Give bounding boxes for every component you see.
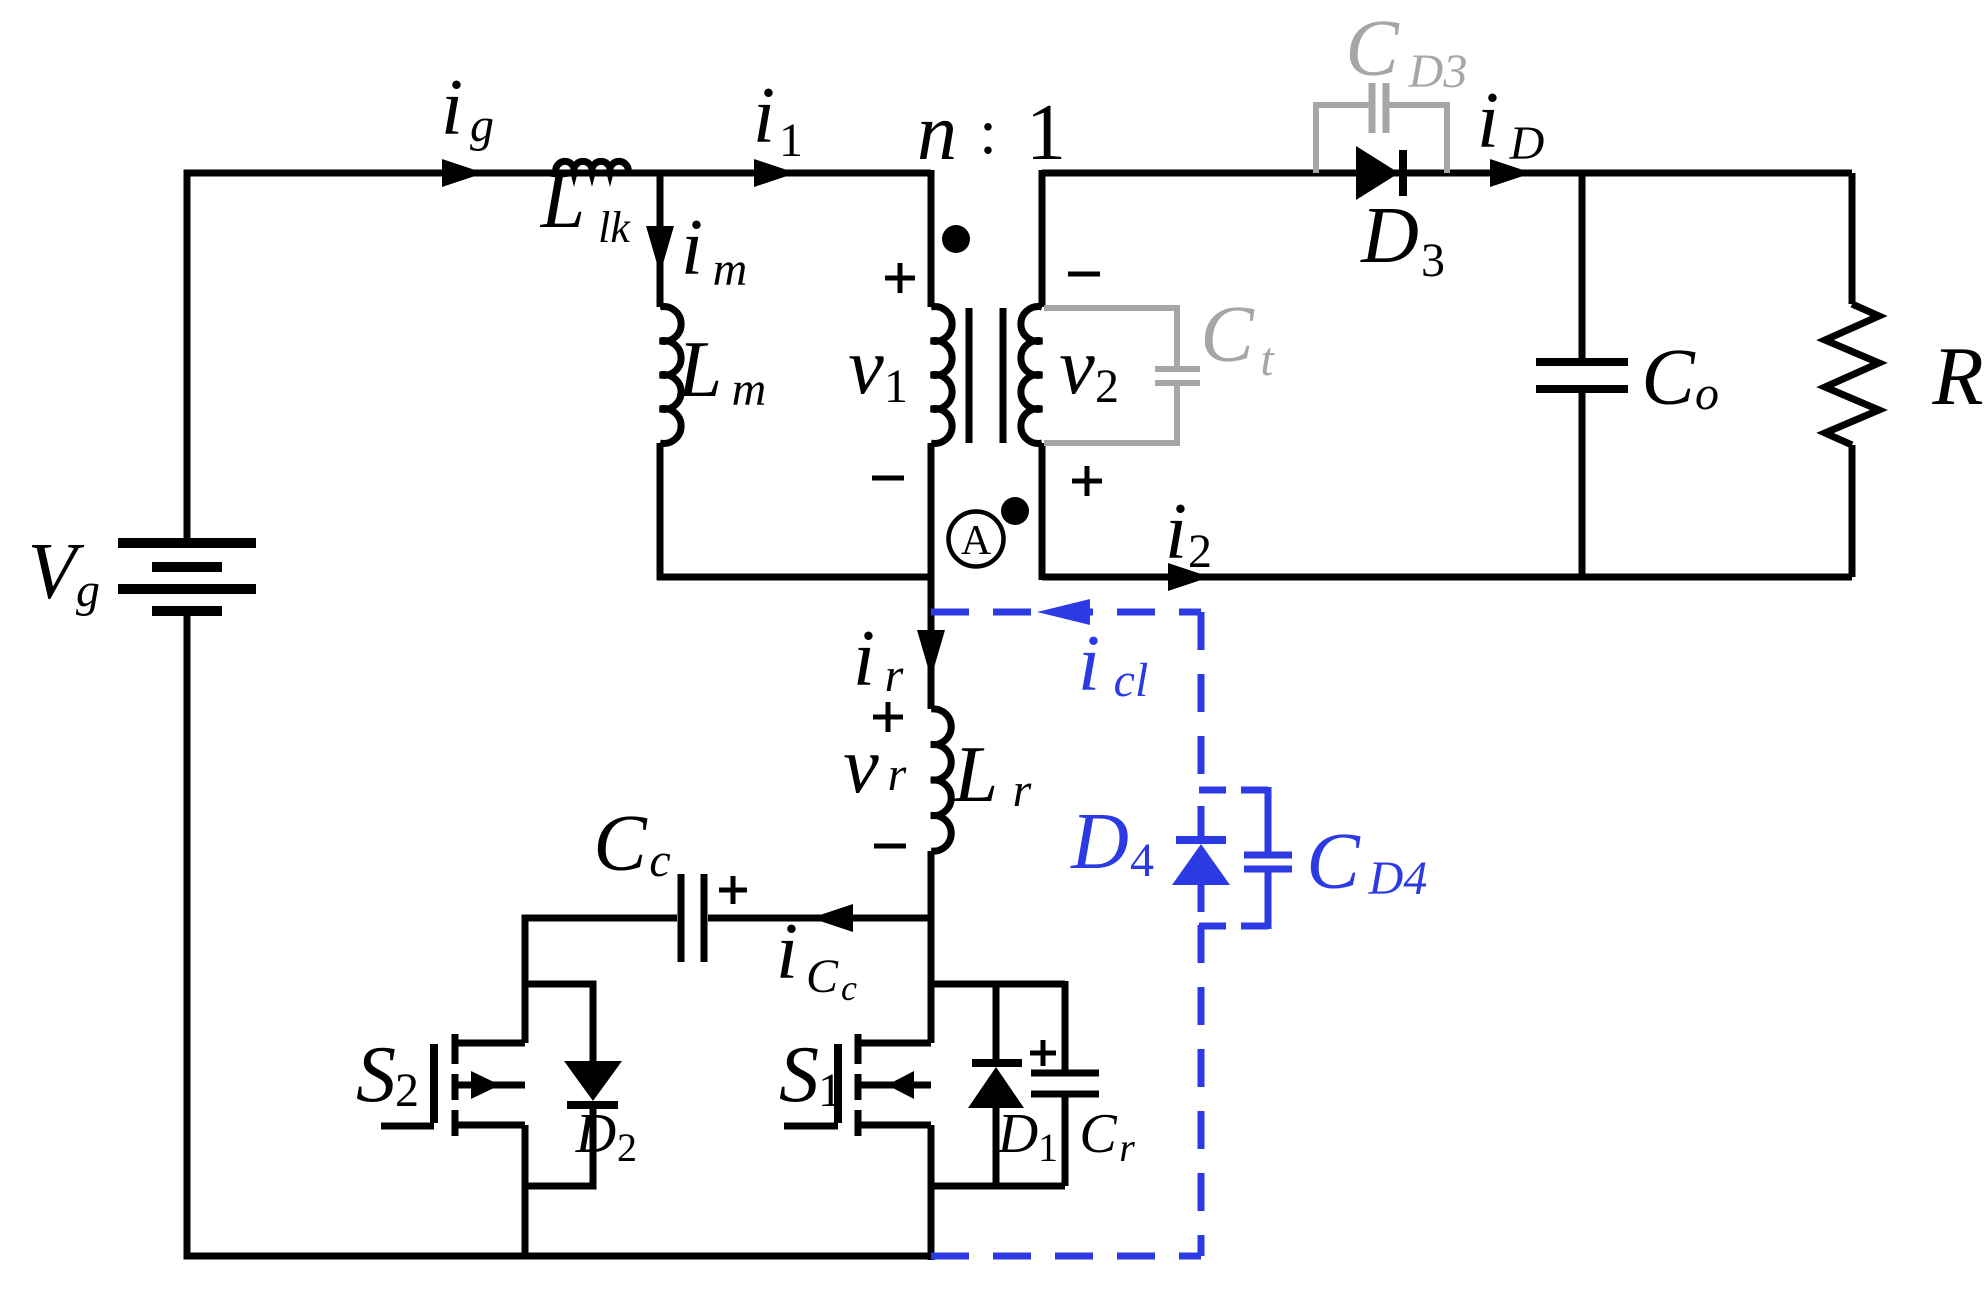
svg-text:S: S bbox=[779, 1031, 819, 1119]
label v1 minus bbox=[872, 476, 904, 481]
current arrow iD bbox=[1490, 159, 1532, 187]
current arrow iCc bbox=[811, 904, 853, 932]
svg-text:r: r bbox=[1013, 764, 1032, 817]
svg-text:m: m bbox=[713, 243, 748, 296]
wire: node A to Lr bbox=[928, 574, 935, 709]
wire: S2 source down bbox=[522, 1125, 529, 1256]
capacitor Ct plate bottom bbox=[1155, 380, 1200, 386]
snubber CD3 left leg bbox=[1316, 105, 1369, 173]
transformer primary winding v1 bbox=[931, 307, 952, 444]
current arrow i1 bbox=[754, 159, 796, 187]
svg-text:cl: cl bbox=[1114, 654, 1149, 707]
inductor Lr bbox=[931, 709, 951, 851]
svg-text:o: o bbox=[1695, 367, 1719, 420]
snubber CD3 right leg bbox=[1389, 105, 1447, 173]
wire: secondary bottom rail bbox=[1042, 574, 1852, 581]
svg-text:D4: D4 bbox=[1368, 852, 1428, 905]
svg-text:lk: lk bbox=[598, 203, 631, 252]
wire: D1 branch lower bbox=[993, 1108, 1000, 1186]
svg-text:D3: D3 bbox=[1408, 45, 1468, 98]
wire: D1 branch upper bbox=[993, 984, 1000, 1063]
capacitor Co plate bottom bbox=[1536, 385, 1628, 393]
label v2 plus bbox=[1072, 479, 1102, 484]
wire: primary loop bottom bbox=[657, 574, 931, 581]
inductor Lm bbox=[660, 307, 681, 444]
capacitor Ct plate top bbox=[1155, 366, 1200, 372]
transistor S2 channel segments bbox=[452, 1034, 459, 1064]
label vr minus bbox=[874, 844, 906, 849]
svg-text:1: 1 bbox=[1026, 89, 1066, 177]
svg-text:C: C bbox=[1345, 5, 1400, 93]
svg-text:r: r bbox=[1119, 1125, 1135, 1170]
svg-text:1: 1 bbox=[818, 1064, 842, 1117]
svg-text:D: D bbox=[997, 1103, 1038, 1165]
capacitor CD4 plate top bbox=[1244, 852, 1292, 859]
svg-text:i: i bbox=[1165, 488, 1187, 576]
clamp loop dashed right upper bbox=[1198, 612, 1205, 790]
capacitor Cc plate left bbox=[678, 874, 685, 962]
transistor S1 gate lead bbox=[784, 1123, 838, 1130]
svg-text:L: L bbox=[540, 157, 586, 245]
wire: Vg top lead + top rail to transformer primary bbox=[187, 173, 931, 543]
capacitor Cr plate bottom bbox=[1031, 1091, 1099, 1098]
wire: S1 bottom bar bbox=[931, 1183, 1065, 1190]
wire: Lr to S1 node bbox=[928, 851, 935, 1043]
transistor S1 drain bar bbox=[855, 1040, 931, 1047]
wire: Cr branch lower bbox=[1062, 1097, 1069, 1186]
svg-text:1: 1 bbox=[779, 114, 803, 167]
wire: Co lower lead bbox=[1579, 391, 1586, 577]
label v1 plus bbox=[885, 276, 915, 281]
inductor Llk bbox=[556, 161, 629, 173]
svg-text::: : bbox=[979, 96, 997, 167]
transistor S2 source bar bbox=[452, 1122, 525, 1129]
diode D4 bbox=[1172, 844, 1230, 885]
clamp loop dashed bottom bbox=[931, 1253, 1201, 1260]
svg-text:i: i bbox=[753, 72, 775, 160]
transistor S2 body bar bbox=[452, 1082, 525, 1089]
svg-text:v: v bbox=[1059, 323, 1095, 411]
wire: secondary upper lead bbox=[1039, 170, 1046, 307]
svg-text:v: v bbox=[843, 722, 879, 810]
svg-text:c: c bbox=[841, 968, 857, 1008]
capacitor Cc plate right bbox=[701, 874, 708, 962]
label vr plus bbox=[873, 715, 903, 720]
transistor S1 channel segments bbox=[855, 1034, 862, 1064]
wire: D2 to bottom bar + back to S2 bbox=[525, 1105, 593, 1186]
battery Vg plate short 2 bbox=[152, 606, 222, 616]
clamp loop dashed right lower bbox=[1198, 925, 1205, 1256]
wire: D4 top stub bbox=[1198, 806, 1205, 840]
svg-text:g: g bbox=[76, 564, 100, 617]
wire: secondary lower lead bbox=[1039, 443, 1046, 580]
svg-text:R: R bbox=[1931, 330, 1983, 423]
wire: S1 source down to bottom rail bbox=[928, 1125, 935, 1260]
transformer core bar right bbox=[1000, 308, 1007, 443]
current arrow ig bbox=[442, 159, 484, 187]
wire: S2 top bar to D2 bbox=[525, 984, 593, 1061]
wire: Vg bottom lead + bottom rail bbox=[187, 611, 931, 1256]
svg-text:D: D bbox=[1070, 798, 1129, 886]
svg-text:i: i bbox=[1477, 77, 1499, 165]
wire: Lm branch upper bbox=[657, 170, 664, 307]
svg-text:4: 4 bbox=[1130, 834, 1154, 887]
svg-text:C: C bbox=[806, 950, 839, 1003]
svg-text:2: 2 bbox=[1188, 525, 1212, 578]
svg-text:D: D bbox=[1509, 117, 1545, 170]
capacitor Ct loop wire top bbox=[1044, 308, 1177, 366]
label v2 minus bbox=[1068, 272, 1100, 277]
svg-text:L: L bbox=[677, 326, 723, 414]
svg-text:D: D bbox=[1360, 192, 1419, 280]
transistor S2 gate lead bbox=[381, 1123, 434, 1130]
wire: R lower lead bbox=[1849, 445, 1856, 577]
current arrow ir bbox=[917, 630, 945, 678]
svg-text:C: C bbox=[1306, 818, 1361, 906]
capacitor CD4 bracket top bbox=[1199, 787, 1270, 794]
wire: S1 top bar bbox=[931, 981, 1065, 988]
capacitor Ct loop wire bottom bbox=[1044, 386, 1177, 443]
transistor S1 gate bar bbox=[834, 1044, 842, 1123]
transformer secondary winding v2 bbox=[1021, 307, 1042, 444]
svg-text:i: i bbox=[681, 204, 703, 292]
diode D2 cathode bar bbox=[567, 1101, 618, 1109]
svg-text:i: i bbox=[441, 64, 463, 152]
svg-text:A: A bbox=[961, 518, 992, 564]
svg-text:i: i bbox=[1078, 620, 1100, 708]
snubber CD3 plate left bbox=[1369, 83, 1376, 133]
diode D1 cathode bar bbox=[972, 1059, 1022, 1067]
diode D1 bbox=[968, 1067, 1024, 1108]
wire: D4 bottom stub bbox=[1198, 885, 1205, 912]
svg-text:1: 1 bbox=[884, 360, 908, 413]
wire: primary lower lead bbox=[928, 443, 935, 580]
wire: Lm branch lower bbox=[657, 443, 664, 580]
transformer dot primary bbox=[942, 225, 970, 253]
svg-text:D: D bbox=[575, 1103, 616, 1165]
capacitor Co plate top bbox=[1536, 358, 1628, 366]
transformer core bar left bbox=[966, 308, 973, 443]
transistor S2 drain bar bbox=[452, 1040, 525, 1047]
svg-text:n: n bbox=[917, 89, 957, 177]
svg-text:3: 3 bbox=[1421, 234, 1445, 287]
svg-text:2: 2 bbox=[1095, 360, 1119, 413]
battery Vg plate long top bbox=[118, 538, 256, 548]
diode D3 cathode bar bbox=[1399, 150, 1407, 196]
svg-text:C: C bbox=[1079, 1103, 1117, 1165]
current arrow i2 bbox=[1168, 563, 1210, 591]
wire: Cc right segment bbox=[708, 915, 934, 922]
svg-text:C: C bbox=[1200, 291, 1255, 379]
svg-text:t: t bbox=[1260, 333, 1275, 386]
battery Vg plate long 2 bbox=[118, 584, 256, 594]
clamp loop dashed top bbox=[931, 609, 1201, 616]
transistor S2 body arrow bbox=[471, 1071, 500, 1099]
transformer dot secondary bbox=[1001, 497, 1029, 525]
svg-text:i: i bbox=[853, 615, 875, 703]
diode D4 cathode bar bbox=[1176, 836, 1226, 844]
wire: primary upper lead bbox=[928, 170, 935, 307]
svg-text:g: g bbox=[470, 99, 494, 152]
wire: Cc left segment + drop to S2 bbox=[525, 918, 677, 1043]
current arrow icl bbox=[1037, 599, 1090, 625]
svg-text:1: 1 bbox=[1038, 1125, 1058, 1170]
label Cc plus bbox=[719, 888, 747, 893]
svg-text:S: S bbox=[356, 1031, 396, 1119]
capacitor Cr plate top bbox=[1031, 1070, 1099, 1077]
capacitor CD4 bracket bottom bbox=[1265, 872, 1272, 929]
wire: R upper lead bbox=[1849, 173, 1856, 304]
resistor R zigzag bbox=[1825, 304, 1879, 445]
svg-text:2: 2 bbox=[617, 1125, 637, 1170]
snubber CD3 plate right bbox=[1383, 83, 1390, 133]
svg-text:v: v bbox=[848, 323, 884, 411]
svg-text:2: 2 bbox=[395, 1064, 419, 1117]
svg-text:i: i bbox=[776, 908, 798, 996]
svg-text:r: r bbox=[885, 649, 904, 702]
label Cr plus bbox=[1030, 1051, 1056, 1056]
transistor S1 source bar bbox=[855, 1122, 931, 1129]
svg-text:C: C bbox=[593, 800, 648, 888]
diode D3 bbox=[1356, 146, 1399, 200]
svg-text:m: m bbox=[732, 363, 767, 416]
svg-text:r: r bbox=[888, 748, 907, 801]
svg-text:L: L bbox=[953, 731, 999, 819]
capacitor CD4 plate bottom bbox=[1244, 866, 1292, 873]
wire: Cr branch upper bbox=[1062, 981, 1069, 1070]
diode D2 bbox=[564, 1061, 622, 1101]
current arrow im bbox=[646, 226, 674, 274]
wire: Co upper lead bbox=[1579, 173, 1586, 360]
battery Vg plate short 1 bbox=[152, 562, 222, 572]
transistor S1 body bar bbox=[855, 1082, 931, 1089]
svg-text:C: C bbox=[1641, 334, 1696, 422]
wire: secondary top rail bbox=[1042, 170, 1852, 177]
transistor S1 body arrow bbox=[887, 1071, 914, 1099]
svg-text:c: c bbox=[649, 834, 670, 887]
transistor S2 gate bar bbox=[430, 1044, 438, 1123]
node A circle bbox=[949, 512, 1004, 567]
